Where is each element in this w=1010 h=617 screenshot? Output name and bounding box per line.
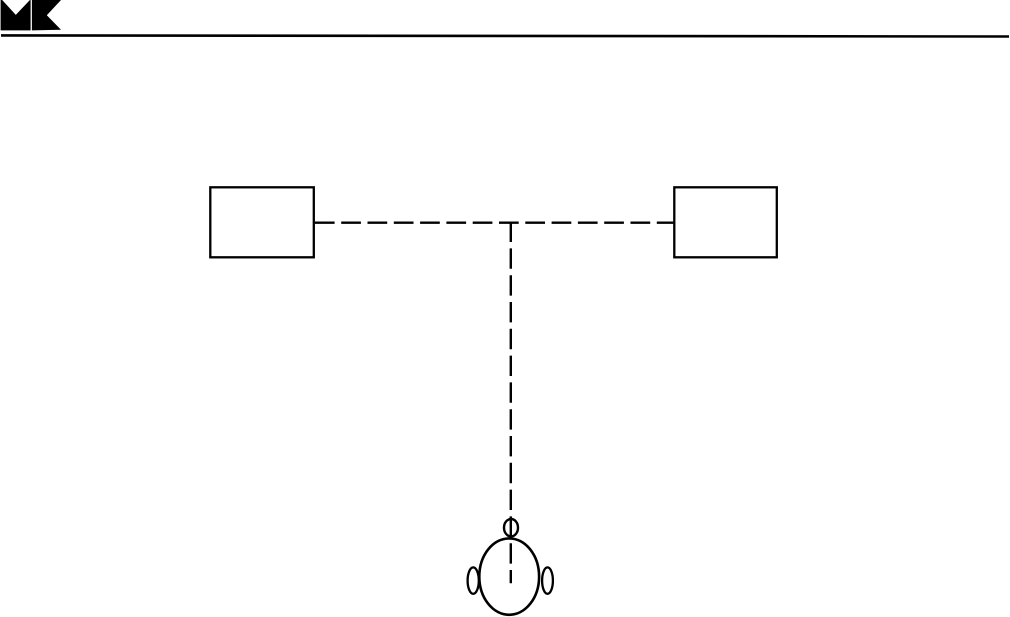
M&K logo K glyph: [32, 0, 61, 30]
listener left ear: [468, 567, 479, 593]
M&K logo M glyph: [1, 0, 31, 30]
left speaker box: [210, 187, 313, 257]
dashed wire: left speaker to right speaker: [315, 221, 674, 223]
listener head: [479, 538, 539, 614]
dashed wire: center down to listener: [510, 222, 512, 584]
listener nose: [504, 519, 518, 536]
header rule: [1, 35, 1009, 36]
listener right ear: [542, 567, 553, 593]
right speaker box: [674, 187, 777, 257]
